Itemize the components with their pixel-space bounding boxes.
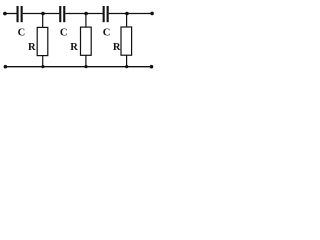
terminal dot input bottom bbox=[4, 65, 8, 69]
capacitor C2 bbox=[59, 6, 65, 22]
junction dot R1-ground bbox=[41, 65, 44, 68]
resistor R3 bbox=[121, 27, 132, 55]
svg-text:C: C bbox=[60, 27, 68, 38]
resistor R2 bbox=[81, 27, 92, 55]
wire top rail segment: C2 to C3 bbox=[65, 13, 102, 15]
svg-text:R: R bbox=[113, 42, 121, 53]
node B junction dot bbox=[84, 12, 88, 16]
wire vertical: R1 bottom to ground rail bbox=[42, 56, 44, 67]
wire top rail segment: input dot to C1 bbox=[5, 13, 17, 15]
resistor R1 bbox=[37, 27, 48, 55]
junction dot R3-ground bbox=[125, 65, 128, 68]
terminal dot output top bbox=[150, 12, 154, 16]
capacitor C3 bbox=[103, 6, 109, 22]
wire bottom ground rail bbox=[5, 66, 151, 68]
junction dot R2-ground bbox=[84, 65, 87, 68]
terminal dot input top bbox=[3, 12, 7, 16]
wire vertical: node C to R3 top bbox=[126, 14, 128, 28]
wire top rail segment: C1 to C2 bbox=[23, 13, 60, 15]
wire vertical: R2 bottom to ground rail bbox=[85, 55, 87, 66]
node C junction dot bbox=[125, 12, 129, 16]
svg-text:C: C bbox=[103, 27, 111, 38]
wire top rail segment: C3 to output dot bbox=[109, 13, 152, 15]
wire vertical: node A to R1 top bbox=[42, 14, 44, 28]
wire vertical: node B to R2 top bbox=[85, 14, 87, 28]
terminal dot output bottom bbox=[150, 65, 154, 69]
svg-text:C: C bbox=[18, 27, 26, 38]
wire vertical: R3 bottom to ground rail bbox=[126, 55, 128, 66]
svg-text:R: R bbox=[28, 42, 36, 53]
svg-text:R: R bbox=[70, 42, 78, 53]
node A junction dot bbox=[41, 12, 45, 16]
capacitor C1 bbox=[17, 6, 23, 22]
